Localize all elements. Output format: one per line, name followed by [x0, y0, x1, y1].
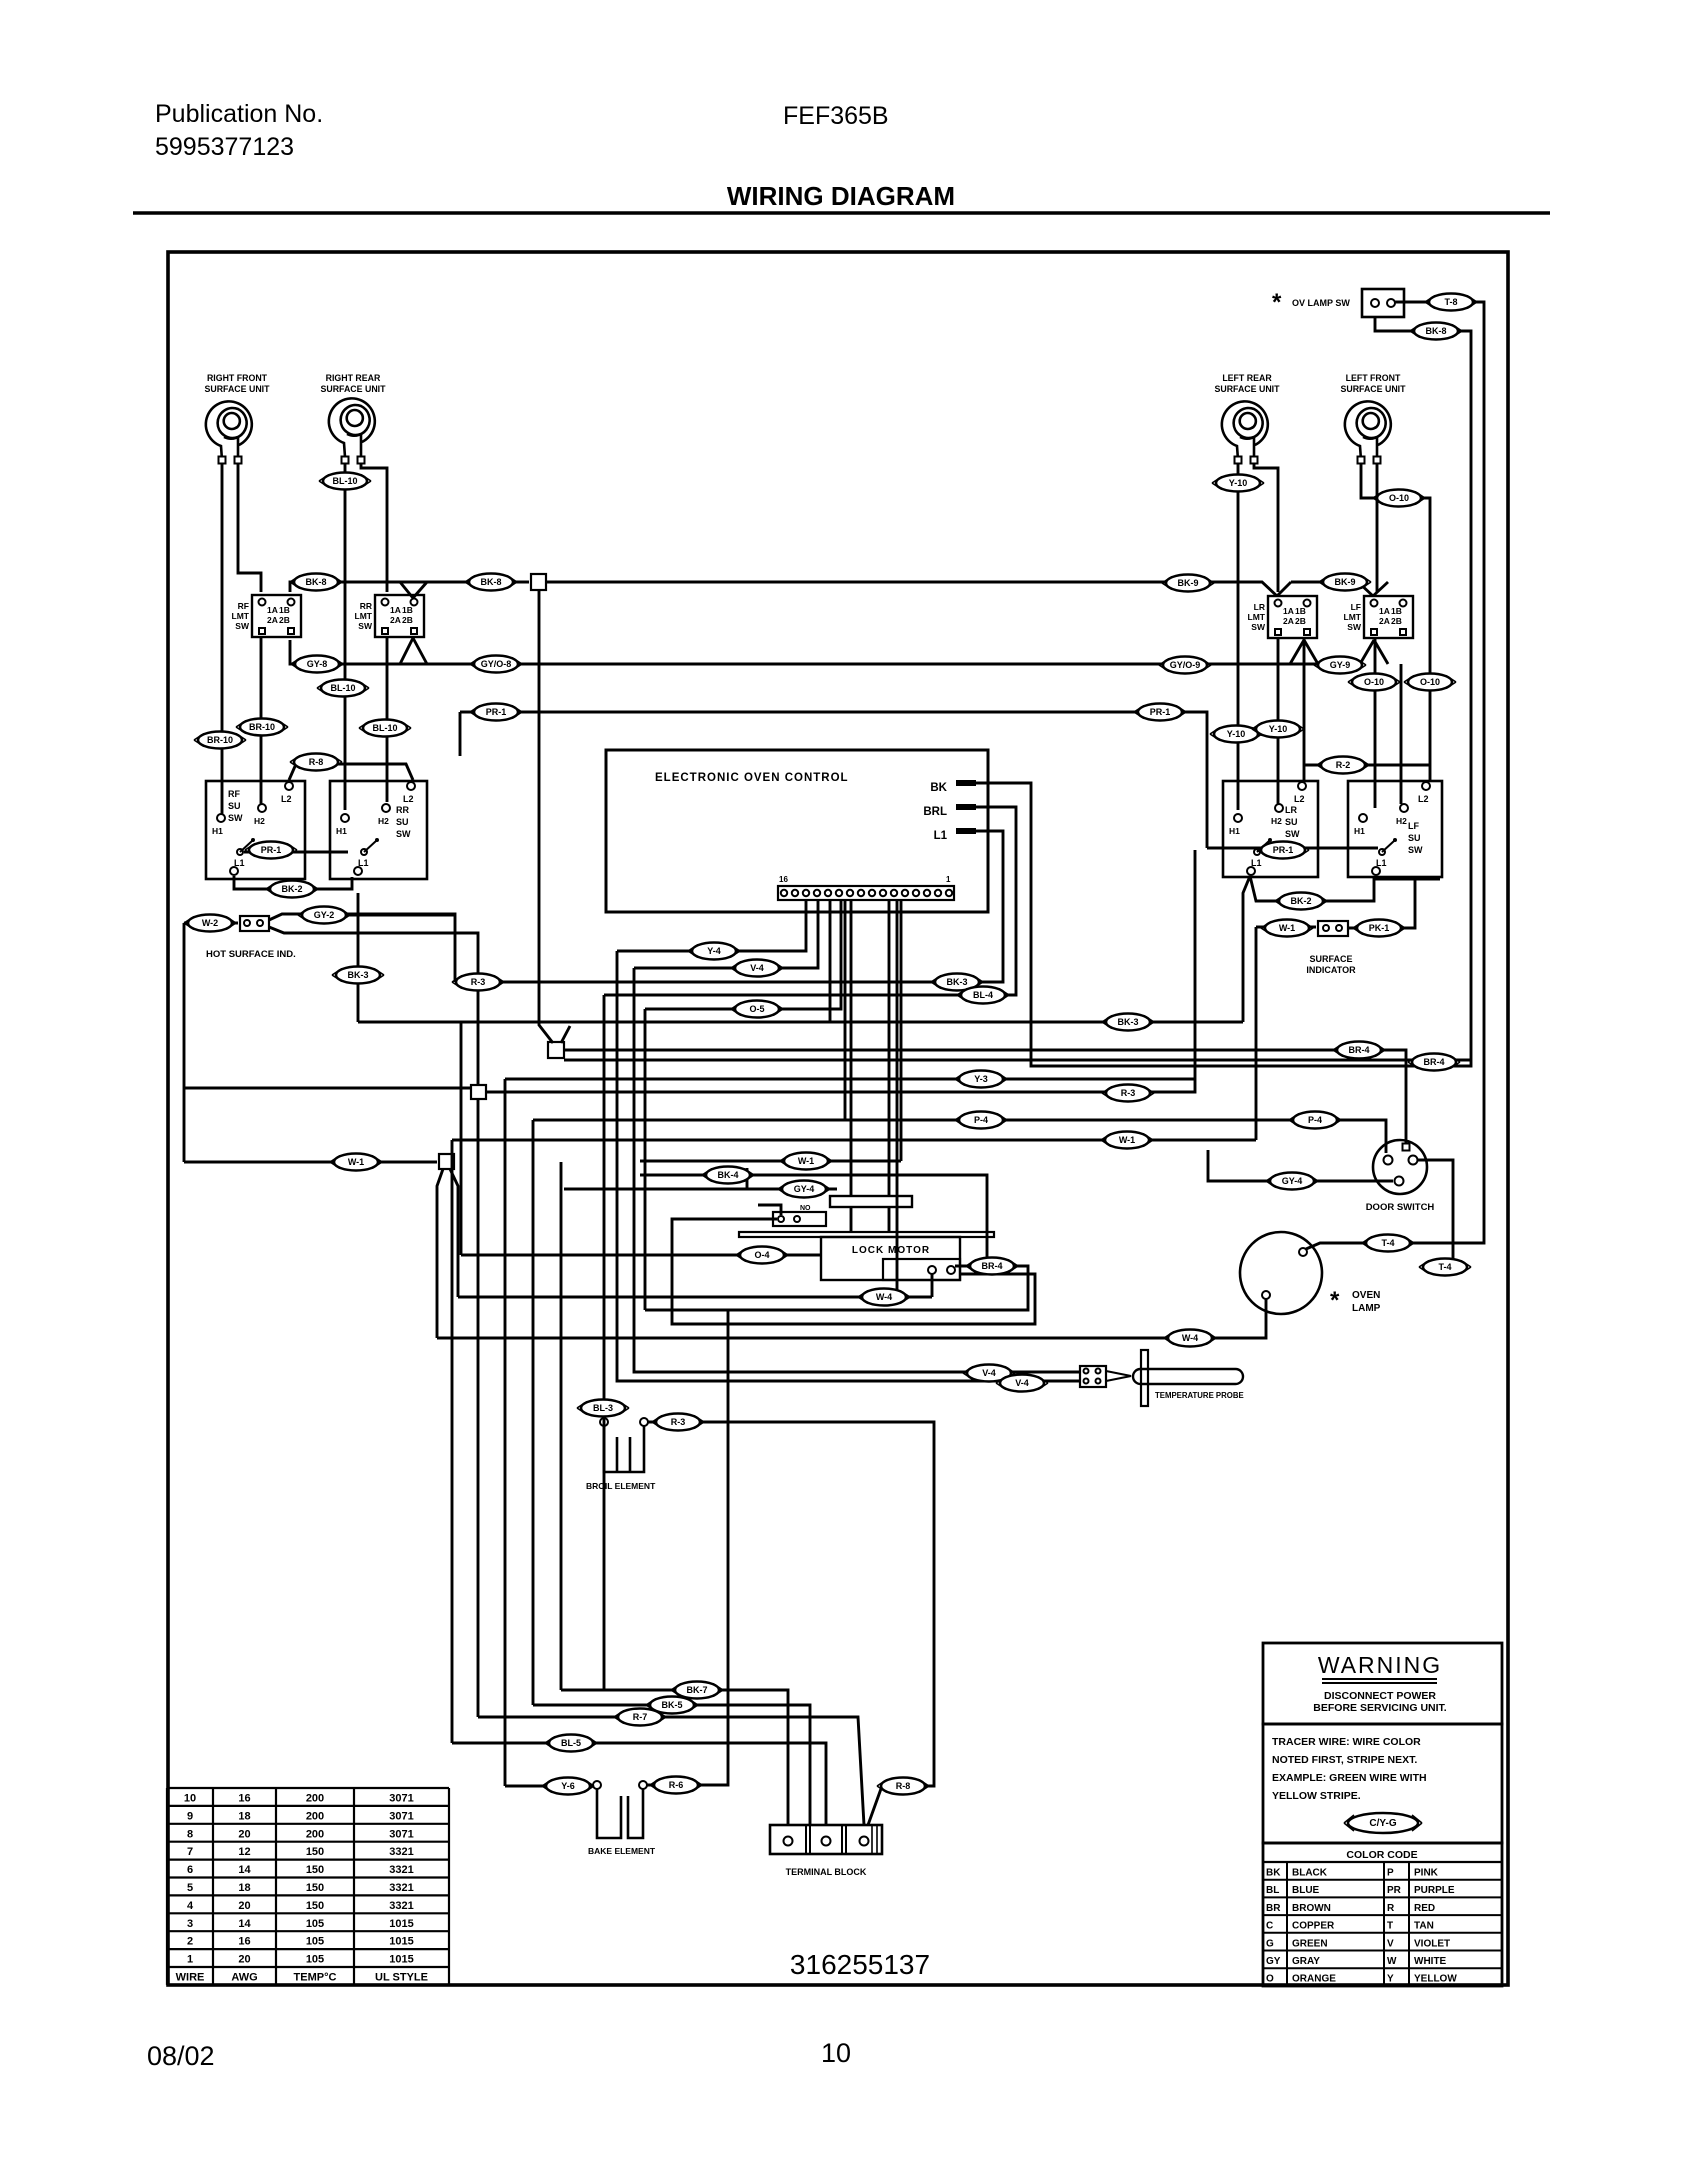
svg-text:V-4: V-4 — [982, 1368, 996, 1378]
RF limit switch — [252, 595, 301, 637]
svg-text:PR-1: PR-1 — [486, 707, 507, 717]
svg-text:INDICATOR: INDICATOR — [1306, 965, 1356, 975]
svg-text:14: 14 — [238, 1918, 251, 1930]
oven lamp switch terminals — [1371, 299, 1379, 307]
svg-text:TEMP°C: TEMP°C — [294, 1972, 337, 1984]
connector BK-8 — [465, 574, 517, 591]
svg-text:BROIL ELEMENT: BROIL ELEMENT — [586, 1481, 656, 1491]
connector BR-4 — [1333, 1042, 1385, 1059]
connector GY/O-9 — [1159, 657, 1211, 674]
svg-text:16: 16 — [779, 875, 788, 884]
connector BK-2 — [266, 881, 318, 898]
svg-text:SURFACE UNIT: SURFACE UNIT — [1214, 384, 1280, 394]
svg-text:L2: L2 — [403, 794, 414, 804]
wire terminal drop plate1 — [850, 899, 853, 1196]
svg-text:H1: H1 — [1229, 826, 1240, 836]
svg-text:BAKE ELEMENT: BAKE ELEMENT — [588, 1846, 656, 1856]
terminal block — [770, 1825, 882, 1854]
left rear surface unit terminals — [1235, 457, 1242, 464]
wire PR-1 bus — [460, 712, 1207, 848]
svg-text:GY: GY — [1266, 1956, 1281, 1967]
connector BK-5 — [646, 1697, 698, 1714]
connector O-4 — [736, 1247, 788, 1264]
wire L1 run — [455, 831, 1003, 982]
svg-text:1: 1 — [946, 875, 951, 884]
wire left mid bus — [184, 1087, 471, 1090]
left rear surface unit coil — [1222, 401, 1268, 460]
svg-text:2A: 2A — [1379, 616, 1390, 626]
wire junction W-1 square — [439, 1154, 454, 1169]
svg-text:O-10: O-10 — [1420, 677, 1440, 687]
hot surface indicator box — [240, 916, 269, 931]
svg-text:WIRE: WIRE — [176, 1972, 205, 1984]
wire riser R-7 lower — [477, 1099, 480, 1717]
svg-text:O-10: O-10 — [1364, 677, 1384, 687]
svg-text:1015: 1015 — [389, 1918, 413, 1930]
connector W-1 — [330, 1154, 382, 1171]
svg-text:BR-4: BR-4 — [1348, 1045, 1369, 1055]
svg-text:1A: 1A — [267, 605, 278, 615]
wire LR coil right lead — [1254, 464, 1278, 592]
door switch circle — [1373, 1140, 1427, 1194]
svg-text:2A: 2A — [1283, 616, 1294, 626]
svg-text:PR-1: PR-1 — [1150, 707, 1171, 717]
connector W-1 — [1101, 1132, 1153, 1149]
svg-text:20: 20 — [238, 1828, 250, 1840]
svg-text:SW: SW — [235, 621, 250, 631]
lock motor aux switch — [773, 1212, 826, 1226]
svg-text:FEF365B: FEF365B — [783, 102, 889, 130]
svg-text:Y-3: Y-3 — [974, 1074, 988, 1084]
svg-text:OVEN: OVEN — [1352, 1290, 1380, 1301]
svg-text:R-7: R-7 — [633, 1712, 648, 1722]
connector BL-10 — [319, 473, 371, 490]
svg-text:BRL: BRL — [923, 806, 947, 818]
svg-text:16: 16 — [238, 1936, 250, 1948]
svg-text:1B: 1B — [1391, 606, 1402, 616]
svg-text:LMT: LMT — [232, 611, 250, 621]
bake element terminals — [593, 1781, 601, 1789]
connector GY-4 — [778, 1181, 830, 1198]
svg-text:TRACER WIRE: WIRE COLOR: TRACER WIRE: WIRE COLOR — [1272, 1736, 1421, 1748]
svg-text:2B: 2B — [402, 615, 413, 625]
svg-text:2A: 2A — [390, 615, 401, 625]
svg-text:3071: 3071 — [389, 1810, 413, 1822]
wire terminal drop t11 — [900, 899, 903, 1161]
left front surface unit coil — [1345, 401, 1391, 460]
RF surface unit switch — [206, 781, 305, 879]
svg-text:V-4: V-4 — [750, 963, 764, 973]
wire LF limit 1A to H1 — [1374, 637, 1377, 808]
svg-text:1A: 1A — [1283, 606, 1294, 616]
svg-text:150: 150 — [306, 1900, 324, 1912]
svg-text:R-2: R-2 — [1336, 760, 1351, 770]
svg-text:RF: RF — [228, 789, 240, 799]
svg-text:SURFACE UNIT: SURFACE UNIT — [204, 384, 270, 394]
svg-text:3321: 3321 — [389, 1900, 413, 1912]
connector BK-4 — [702, 1167, 754, 1184]
wire R-7 line — [478, 1717, 864, 1825]
svg-text:8: 8 — [187, 1828, 193, 1840]
svg-text:6: 6 — [187, 1864, 193, 1876]
svg-text:COPPER: COPPER — [1292, 1921, 1335, 1932]
wire Y-4 line — [617, 899, 806, 951]
wire gauge table — [167, 1787, 449, 1789]
broil element terminals — [600, 1418, 608, 1426]
connector Y-10 — [1212, 475, 1264, 492]
warning box — [1263, 1643, 1502, 1724]
svg-text:1B: 1B — [1295, 606, 1306, 616]
connector W-2 — [184, 915, 236, 932]
svg-text:BL-10: BL-10 — [332, 476, 357, 486]
svg-text:SW: SW — [1408, 845, 1423, 855]
svg-text:LMT: LMT — [1248, 612, 1266, 622]
wire riser 617 to probe — [617, 951, 1080, 1381]
svg-text:H2: H2 — [254, 816, 265, 826]
connector V-4 — [963, 1365, 1015, 1382]
svg-text:BL-10: BL-10 — [330, 683, 355, 693]
svg-text:L2: L2 — [281, 794, 292, 804]
svg-text:T-8: T-8 — [1444, 297, 1457, 307]
svg-text:105: 105 — [306, 1954, 324, 1966]
svg-text:R: R — [1387, 1903, 1395, 1914]
wire GY-4 door bottom — [1208, 1150, 1393, 1181]
wire W-1c motor line — [640, 1160, 901, 1163]
svg-text:12: 12 — [238, 1846, 250, 1858]
svg-text:SW: SW — [1347, 622, 1362, 632]
svg-text:L1: L1 — [934, 830, 948, 842]
wire GY-2 short — [340, 914, 455, 917]
svg-text:Y-10: Y-10 — [1227, 729, 1246, 739]
svg-text:P-4: P-4 — [1308, 1115, 1322, 1125]
svg-text:R-3: R-3 — [471, 977, 486, 987]
svg-text:H2: H2 — [378, 816, 389, 826]
wire terminal drop t6b — [844, 899, 847, 1120]
svg-text:O-4: O-4 — [754, 1250, 769, 1260]
connector Y-3 — [955, 1071, 1007, 1088]
wire PK-1 line — [1348, 880, 1415, 928]
svg-text:R-3: R-3 — [671, 1417, 686, 1427]
connector GY-4 — [1266, 1173, 1318, 1190]
right front surface unit coil — [206, 401, 252, 460]
svg-text:200: 200 — [306, 1828, 324, 1840]
wire W-1 line to junction — [184, 1161, 437, 1164]
svg-text:T: T — [1387, 1921, 1393, 1932]
wire main feed riser — [539, 590, 570, 1043]
connector P-4 — [1289, 1112, 1341, 1129]
wire LF coil left lead to O-10 riser — [1361, 464, 1430, 782]
wire riser 533 down — [532, 1120, 535, 1705]
svg-text:18: 18 — [238, 1810, 250, 1822]
svg-text:SURFACE UNIT: SURFACE UNIT — [1340, 384, 1406, 394]
wire RR limit crossover bottom — [400, 638, 427, 664]
svg-text:Y-10: Y-10 — [1269, 724, 1288, 734]
connector T-4 — [1362, 1235, 1414, 1252]
wire GY-4 long — [564, 1188, 747, 1191]
svg-text:PURPLE: PURPLE — [1414, 1885, 1455, 1896]
svg-text:V: V — [1387, 1938, 1394, 1949]
svg-text:SU: SU — [1408, 833, 1421, 843]
svg-text:1015: 1015 — [389, 1954, 413, 1966]
svg-text:BK-3: BK-3 — [946, 977, 967, 987]
svg-text:W: W — [1387, 1956, 1397, 1967]
wire V-4 line — [634, 899, 818, 968]
wire W-1b bus — [452, 1139, 1256, 1142]
svg-text:RIGHT FRONT: RIGHT FRONT — [207, 373, 268, 383]
svg-text:COLOR CODE: COLOR CODE — [1346, 1849, 1417, 1861]
svg-text:BK-8: BK-8 — [305, 577, 326, 587]
surface indicator box — [1318, 921, 1348, 936]
connector BK-9 — [1319, 574, 1371, 591]
wire motor loop 1 — [645, 1266, 1028, 1310]
svg-text:DOOR SWITCH: DOOR SWITCH — [1366, 1202, 1435, 1213]
wire W-2 to hot surface indicator — [184, 922, 238, 925]
wire junction fan left — [437, 1169, 443, 1338]
svg-text:1015: 1015 — [389, 1936, 413, 1948]
svg-text:200: 200 — [306, 1793, 324, 1805]
svg-text:H1: H1 — [336, 826, 347, 836]
temperature probe mounting plate — [1141, 1350, 1148, 1406]
lock motor body — [821, 1237, 960, 1280]
wire door right pin to T-4b — [1417, 1160, 1453, 1267]
connector BK-3 — [1102, 1014, 1154, 1031]
wire BR-4b bus — [564, 1059, 1471, 1062]
svg-text:BL-4: BL-4 — [973, 990, 993, 1000]
wire R-6 line — [647, 1310, 728, 1785]
wire terminal drop t10 — [896, 899, 899, 1297]
tracer wire box — [1263, 1724, 1502, 1843]
svg-text:YELLOW: YELLOW — [1414, 1974, 1457, 1985]
svg-text:PR: PR — [1387, 1885, 1402, 1896]
svg-text:200: 200 — [306, 1810, 324, 1822]
svg-text:R-3: R-3 — [1121, 1088, 1136, 1098]
svg-text:LEFT FRONT: LEFT FRONT — [1346, 373, 1401, 383]
wire lamp top to T-8 riser — [1306, 302, 1484, 1249]
svg-text:L2: L2 — [1294, 794, 1305, 804]
svg-text:RED: RED — [1414, 1903, 1435, 1914]
connector R-3 — [452, 974, 504, 991]
wire R-3b bus — [486, 1079, 1195, 1092]
wire BK-8 bus from RF limit switch to junction — [290, 582, 529, 592]
svg-text:VIOLET: VIOLET — [1414, 1938, 1450, 1949]
temperature probe cone — [1106, 1371, 1131, 1381]
wire left riser — [183, 923, 186, 1162]
wire BK-7 line — [561, 1690, 788, 1825]
svg-text:Y: Y — [1387, 1974, 1394, 1985]
LF limit switch — [1364, 596, 1413, 638]
svg-text:08/02: 08/02 — [147, 2041, 215, 2071]
connector GY-8 — [291, 656, 343, 673]
wire RR limit 1A to RR H2 — [386, 637, 389, 802]
wire hot surface indicator fork lower — [269, 927, 478, 1085]
svg-text:3321: 3321 — [389, 1864, 413, 1876]
connector GY-2 — [298, 907, 350, 924]
svg-text:C/Y-G: C/Y-G — [1369, 1818, 1396, 1829]
svg-text:OV LAMP SW: OV LAMP SW — [1292, 298, 1350, 308]
svg-text:SW: SW — [396, 829, 411, 839]
svg-text:R-6: R-6 — [669, 1780, 684, 1790]
svg-text:V-4: V-4 — [1015, 1378, 1029, 1388]
svg-text:W-1: W-1 — [1279, 923, 1295, 933]
diagram border — [168, 252, 1508, 1985]
svg-text:GRAY: GRAY — [1292, 1956, 1320, 1967]
svg-text:LR: LR — [1285, 805, 1297, 815]
svg-text:GY/O-9: GY/O-9 — [1170, 660, 1201, 670]
svg-text:20: 20 — [238, 1954, 250, 1966]
color code table — [1263, 1843, 1502, 1986]
svg-text:5: 5 — [187, 1882, 193, 1894]
right front surface unit terminals — [219, 457, 226, 464]
svg-text:Publication No.: Publication No. — [155, 100, 323, 128]
connector V-4 — [731, 960, 783, 977]
svg-text:BR-10: BR-10 — [207, 735, 233, 745]
svg-text:GREEN: GREEN — [1292, 1938, 1328, 1949]
connector Y-6 — [542, 1778, 594, 1795]
svg-text:Y-6: Y-6 — [561, 1781, 575, 1791]
wire hot surface indicator fork upper — [269, 914, 455, 982]
svg-text:5995377123: 5995377123 — [155, 133, 294, 161]
connector Y-10 — [1252, 721, 1304, 738]
connector T-4 — [1419, 1259, 1471, 1276]
svg-text:150: 150 — [306, 1846, 324, 1858]
wire pilot link right — [1207, 847, 1378, 850]
svg-text:2: 2 — [187, 1936, 193, 1948]
wire LF H2 riser — [1400, 664, 1403, 804]
svg-text:BLUE: BLUE — [1292, 1885, 1320, 1896]
svg-text:1B: 1B — [279, 605, 290, 615]
left front surface unit terminals — [1358, 457, 1365, 464]
door switch pins — [1384, 1156, 1393, 1165]
wire surface indicator feed — [1256, 926, 1316, 929]
wire junction square top — [531, 574, 546, 590]
svg-text:P: P — [1387, 1868, 1394, 1879]
svg-text:LR: LR — [1254, 602, 1265, 612]
svg-text:1B: 1B — [402, 605, 413, 615]
svg-text:BK-2: BK-2 — [281, 884, 302, 894]
connector PR-1 — [1134, 704, 1186, 721]
connector BL-5 — [545, 1735, 597, 1752]
svg-text:9: 9 — [187, 1810, 193, 1822]
wire aux switch lead — [758, 1205, 781, 1215]
connector BR-10 — [236, 719, 288, 736]
wire terminal drop t5 — [829, 899, 832, 1022]
wire riser broil BK7 — [603, 995, 606, 1690]
lock motor bar — [739, 1232, 994, 1237]
svg-text:WIRING DIAGRAM: WIRING DIAGRAM — [727, 181, 955, 211]
svg-text:18: 18 — [238, 1882, 250, 1894]
connector BK-8 — [1410, 323, 1462, 340]
wire pilot link left — [244, 851, 348, 854]
svg-text:BK-8: BK-8 — [1425, 326, 1446, 336]
svg-text:LF: LF — [1408, 821, 1419, 831]
svg-text:H2: H2 — [1396, 816, 1407, 826]
wire LR coil left lead — [1237, 464, 1240, 810]
wire RR coil right lead to RR limit 1A — [361, 464, 387, 592]
svg-text:BR-4: BR-4 — [1423, 1057, 1444, 1067]
svg-text:BK-9: BK-9 — [1334, 577, 1355, 587]
svg-text:BK-7: BK-7 — [686, 1685, 707, 1695]
svg-text:BK-9: BK-9 — [1177, 578, 1198, 588]
lock motor plate stems — [851, 1207, 889, 1232]
wire pilot feed riser — [1194, 850, 1197, 1079]
svg-text:PR-1: PR-1 — [261, 845, 282, 855]
svg-text:14: 14 — [238, 1864, 251, 1876]
connector BR-4 — [966, 1258, 1018, 1275]
connector R-2 — [1317, 757, 1369, 774]
connector GY-9 — [1314, 657, 1366, 674]
oven lamp pins — [1299, 1248, 1307, 1256]
svg-text:BL: BL — [1266, 1885, 1279, 1896]
connector PR-1 — [470, 704, 522, 721]
svg-text:LMT: LMT — [355, 611, 373, 621]
svg-text:BK: BK — [930, 782, 947, 794]
svg-text:ORANGE: ORANGE — [1292, 1974, 1336, 1985]
svg-text:10: 10 — [821, 2038, 851, 2068]
svg-text:T-4: T-4 — [1438, 1262, 1451, 1272]
svg-text:BR: BR — [1266, 1903, 1281, 1914]
svg-text:BK-3: BK-3 — [1117, 1017, 1138, 1027]
header underline — [133, 211, 1550, 215]
wire Y-6 line — [505, 1785, 593, 1788]
svg-text:H2: H2 — [1271, 816, 1282, 826]
wire RR L1 drop — [357, 893, 360, 1022]
svg-text:RR: RR — [396, 805, 409, 815]
wire junction fan right — [450, 1169, 458, 1297]
oven lamp switch box — [1362, 289, 1404, 317]
bake element — [597, 1789, 643, 1838]
connector R-3 — [1102, 1085, 1154, 1102]
wire GY-8 bus — [290, 640, 1388, 664]
connector BR-10 — [194, 732, 246, 749]
svg-text:H1: H1 — [212, 826, 223, 836]
svg-text:ELECTRONIC OVEN CONTROL: ELECTRONIC OVEN CONTROL — [655, 772, 849, 784]
connector GY/O-8 — [470, 656, 522, 673]
wire W-4 lamp line — [437, 1299, 1266, 1338]
wire lamp sw left pin BK riser — [976, 317, 1471, 1066]
svg-text:BR-4: BR-4 — [981, 1261, 1002, 1271]
wire BK-5 line — [533, 1705, 810, 1825]
svg-text:RR: RR — [360, 601, 372, 611]
wire BK-8 bus junction to LR limit switch — [546, 582, 1388, 596]
svg-text:TEMPERATURE PROBE: TEMPERATURE PROBE — [1155, 1391, 1244, 1400]
svg-text:BK-5: BK-5 — [661, 1700, 682, 1710]
svg-text:WHITE: WHITE — [1414, 1956, 1447, 1967]
svg-text:316255137: 316255137 — [790, 1949, 930, 1980]
svg-text:LF: LF — [1351, 602, 1361, 612]
connector BL-10 — [317, 680, 369, 697]
wire BRL run — [604, 807, 1016, 995]
svg-text:SURFACE UNIT: SURFACE UNIT — [320, 384, 386, 394]
wire riser 561 — [560, 1162, 563, 1690]
svg-text:LEFT REAR: LEFT REAR — [1222, 373, 1272, 383]
svg-text:BK-4: BK-4 — [717, 1170, 738, 1180]
svg-text:BR-10: BR-10 — [249, 722, 275, 732]
connector BL-10 — [359, 720, 411, 737]
electronic oven control box — [606, 750, 988, 912]
svg-text:SW: SW — [358, 621, 373, 631]
temperature probe connector — [1080, 1366, 1106, 1387]
wire R-2 link — [1304, 764, 1430, 767]
connector BR-4 — [1408, 1054, 1460, 1071]
connector R-7 — [614, 1709, 666, 1726]
svg-text:PK-1: PK-1 — [1369, 923, 1390, 933]
wire LR limit 1A to H2 — [1277, 637, 1280, 804]
RR surface unit switch — [330, 781, 427, 879]
wire W-4 motor line — [458, 1273, 932, 1297]
wire LR limit 1B to L3 — [1303, 637, 1306, 782]
wire broil right to R-8 — [648, 1422, 934, 1825]
wire P-4 bus to door switch — [533, 1120, 1386, 1153]
